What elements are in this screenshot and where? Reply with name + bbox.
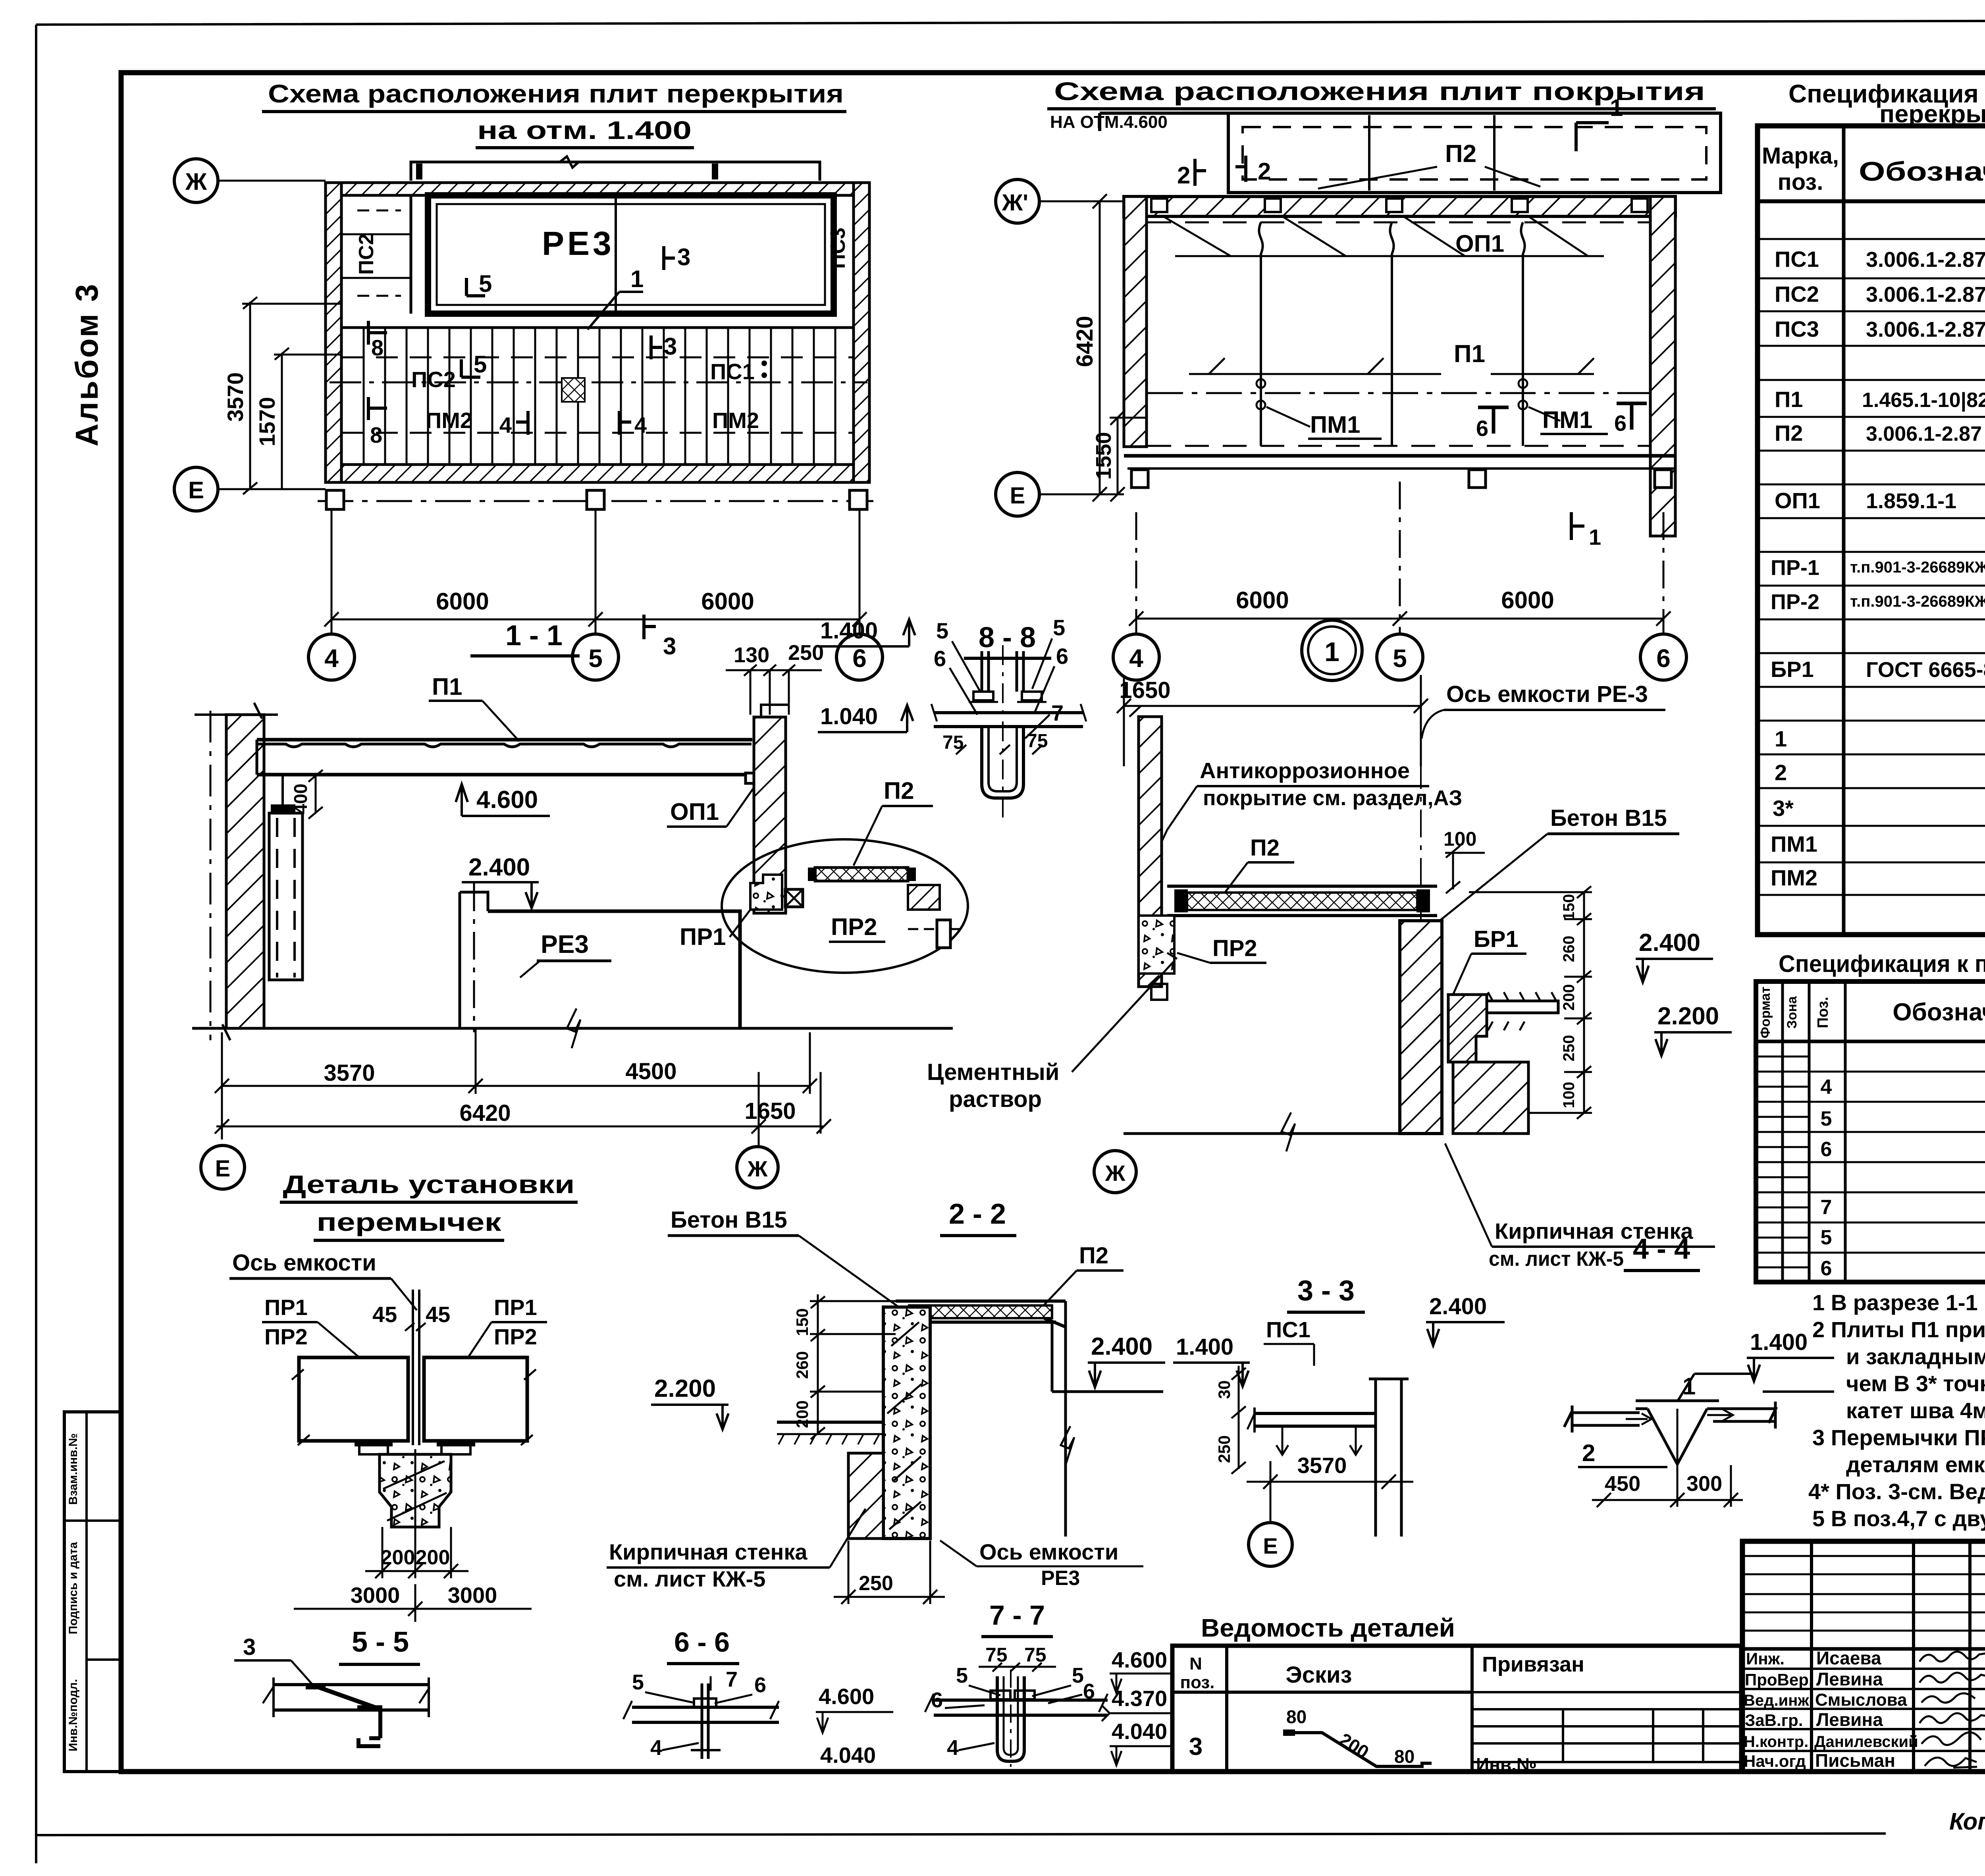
dashed plate edge line (top) — [1147, 222, 1650, 224]
bottom slab line — [1124, 454, 1675, 458]
svg-text:2.400: 2.400 — [1639, 929, 1700, 956]
axis dash-dot line below building — [318, 500, 873, 502]
svg-text:260: 260 — [793, 1351, 811, 1379]
svg-text:поз.: поз. — [1778, 169, 1823, 195]
svg-text:3.006.1-2.87 Вып.2: 3.006.1-2.87 Вып.2 — [1866, 283, 1985, 307]
svg-text:5: 5 — [1821, 1107, 1832, 1130]
right plate — [1713, 1402, 1777, 1429]
svg-text:6: 6 — [852, 644, 867, 673]
svg-text:7: 7 — [726, 1668, 738, 1691]
svg-text:4: 4 — [947, 1736, 959, 1760]
svg-text:Альбом 3: Альбом 3 — [69, 283, 104, 447]
hanger spec table grid — [1756, 981, 1985, 1282]
ПР2 square with cross — [785, 889, 803, 907]
svg-text:5: 5 — [588, 644, 603, 673]
svg-text:8: 8 — [370, 422, 382, 447]
svg-text:200: 200 — [1560, 984, 1578, 1011]
svg-text:Спецификация к подвескам метал: Спецификация к подвескам металлическим П… — [1779, 951, 1985, 977]
svg-text:3: 3 — [243, 1634, 256, 1660]
П2 plate — [1187, 893, 1417, 910]
svg-text:6: 6 — [1821, 1257, 1832, 1280]
svg-text:Письман: Письман — [1815, 1750, 1895, 1771]
svg-text:БР1: БР1 — [1771, 657, 1814, 682]
svg-text:П1: П1 — [1454, 340, 1485, 368]
bearing pads — [355, 1441, 393, 1446]
svg-text:см. лист КЖ-5: см. лист КЖ-5 — [614, 1566, 765, 1591]
svg-text:5: 5 — [1072, 1664, 1084, 1687]
svg-text:2: 2 — [1177, 162, 1190, 189]
small sq mark — [1151, 984, 1167, 1000]
concrete pier — [1400, 921, 1442, 1134]
left cells of plan — [341, 195, 411, 314]
beam П1 (roof slab) — [257, 744, 752, 747]
svg-text:3000: 3000 — [448, 1583, 497, 1608]
ОП1 leaders and label — [1163, 216, 1604, 256]
svg-text:Ось емкости: Ось емкости — [979, 1539, 1118, 1564]
lintel plates — [299, 1357, 408, 1441]
svg-text:Данилевский: Данилевский — [1814, 1733, 1918, 1751]
svg-text:1: 1 — [1589, 524, 1601, 549]
svg-text:200: 200 — [793, 1400, 811, 1428]
svg-text:6420: 6420 — [1072, 316, 1098, 367]
svg-text:ПС2: ПС2 — [355, 233, 378, 275]
weld joint plates — [1636, 1401, 1719, 1464]
svg-text:Бетон В15: Бетон В15 — [1550, 805, 1667, 831]
axis circle 6 — [1640, 634, 1686, 680]
svg-text:5: 5 — [474, 351, 487, 378]
dim line 3570 / 4500 — [215, 1028, 817, 1139]
title block grid — [1742, 1541, 1985, 1772]
svg-text:Схема расположения плит перекр: Схема расположения плит перекрытия — [268, 79, 844, 108]
svg-text:6000: 6000 — [436, 588, 489, 615]
dashed column — [269, 813, 303, 980]
U bar below plate — [982, 727, 1023, 798]
ground line — [192, 1027, 953, 1030]
axis circle Е — [1249, 1523, 1292, 1566]
svg-text:Е: Е — [1010, 483, 1025, 509]
svg-text:4* Поз. 3-см. Ведомость детале: 4* Поз. 3-см. Ведомость деталей на данно… — [1808, 1479, 1985, 1504]
feet under building — [1131, 470, 1148, 488]
svg-text:Подпись и дата: Подпись и дата — [67, 1542, 80, 1634]
big node circle 1 — [1302, 620, 1362, 681]
axis circle 5 — [572, 634, 619, 680]
svg-text:ПР2: ПР2 — [831, 914, 877, 940]
left plate — [1564, 1406, 1640, 1433]
svg-text:Зона: Зона — [1785, 996, 1800, 1029]
svg-text:3000: 3000 — [351, 1583, 400, 1608]
svg-text:450: 450 — [1605, 1472, 1640, 1496]
svg-text:1: 1 — [630, 266, 644, 292]
svg-text:5: 5 — [936, 618, 948, 643]
svg-text:200: 200 — [381, 1546, 415, 1569]
svg-text:см. лист КЖ-5: см. лист КЖ-5 — [1489, 1247, 1624, 1271]
svg-text:Смыслова: Смыслова — [1815, 1690, 1907, 1710]
svg-text:3570: 3570 — [223, 372, 248, 422]
svg-text:ПР1: ПР1 — [494, 1295, 537, 1320]
svg-text:1570: 1570 — [254, 397, 279, 447]
left wall with axis — [210, 711, 212, 1040]
building walls (hatched) — [326, 183, 869, 482]
svg-text:Обозначение: Обозначение — [1859, 156, 1985, 187]
concrete block ПР1 — [750, 875, 782, 910]
concrete pier — [380, 1454, 451, 1527]
svg-text:3.006.1-2.87 Вып.2: 3.006.1-2.87 Вып.2 — [1866, 422, 1985, 445]
svg-text:5: 5 — [956, 1664, 968, 1687]
plate — [632, 1706, 779, 1709]
svg-text:Е: Е — [1263, 1533, 1278, 1558]
axis circle Ж' — [996, 179, 1039, 223]
svg-text:ПМ2: ПМ2 — [712, 408, 759, 433]
svg-text:6: 6 — [1056, 644, 1068, 669]
svg-text:П2: П2 — [884, 777, 914, 804]
svg-text:4: 4 — [499, 413, 512, 438]
svg-text:Деталь установки: Деталь установки — [283, 1170, 575, 1199]
tank РЕ3 outline — [428, 195, 834, 314]
svg-text:3: 3 — [1189, 1733, 1203, 1760]
right wall — [754, 717, 786, 913]
section marks 4T T4 — [516, 411, 631, 435]
bortovoy stone БР1 — [1448, 995, 1487, 1062]
svg-text:БР1: БР1 — [1474, 926, 1519, 952]
svg-text:4: 4 — [324, 644, 339, 673]
svg-text:П1: П1 — [432, 673, 463, 700]
svg-text:ПС2: ПС2 — [411, 367, 456, 392]
axis dash-dot mid line — [1147, 392, 1650, 394]
svg-text:8 - 8: 8 - 8 — [979, 622, 1036, 654]
svg-text:Обозначение: Обозначение — [1892, 999, 1985, 1026]
svg-text:2.400: 2.400 — [468, 854, 530, 881]
svg-text:ОП1: ОП1 — [1775, 488, 1820, 513]
columns under building — [326, 490, 344, 509]
svg-text:ПР1: ПР1 — [680, 924, 726, 950]
svg-text:Н.контр.: Н.контр. — [1744, 1733, 1808, 1751]
svg-text:6420: 6420 — [459, 1100, 511, 1126]
lower zone plate joints — [330, 328, 867, 465]
notes list — [1808, 1290, 1985, 1531]
section marks 8 — [368, 321, 387, 420]
svg-text:РЕ3: РЕ3 — [1041, 1567, 1080, 1590]
hatched opening square — [562, 378, 585, 402]
brick wall lower left — [848, 1453, 883, 1539]
svg-text:4.040: 4.040 — [1112, 1719, 1167, 1744]
svg-text:1650: 1650 — [1119, 677, 1170, 703]
svg-text:150: 150 — [793, 1308, 811, 1336]
svg-text:3: 3 — [677, 244, 690, 270]
svg-text:2.200: 2.200 — [654, 1375, 716, 1402]
support pad ОП1 — [746, 773, 775, 783]
svg-text:ЗаВ.гр.: ЗаВ.гр. — [1745, 1711, 1803, 1729]
floor slab left — [777, 1422, 883, 1444]
support pads on top wall — [1151, 199, 1648, 212]
axis circle Ж — [1094, 1151, 1136, 1193]
svg-text:250: 250 — [859, 1572, 893, 1595]
svg-text:ОП1: ОП1 — [670, 798, 719, 825]
svg-text:6000: 6000 — [701, 588, 754, 615]
svg-text:Ж: Ж — [747, 1156, 768, 1181]
svg-text:ОП1: ОП1 — [1455, 230, 1504, 257]
svg-text:т.п.901-3-26689КЖ. И43.0.00: т.п.901-3-26689КЖ. И43.0.00 — [1850, 559, 1985, 576]
spec table grid — [1758, 126, 1985, 935]
shelf plate right — [1487, 1001, 1558, 1013]
svg-text:Левина: Левина — [1816, 1669, 1883, 1689]
svg-text:3 - 3: 3 - 3 — [1297, 1275, 1355, 1307]
tank axis dash-dot line — [1420, 713, 1422, 1134]
svg-text:3*: 3* — [1773, 796, 1794, 821]
svg-text:1650: 1650 — [744, 1098, 796, 1124]
svg-text:80: 80 — [1394, 1746, 1415, 1767]
svg-text:6: 6 — [754, 1673, 766, 1697]
svg-text:П2: П2 — [1445, 140, 1476, 168]
svg-text:75: 75 — [985, 1644, 1008, 1666]
svg-text:45: 45 — [372, 1302, 397, 1327]
svg-text:1.400: 1.400 — [1750, 1329, 1808, 1355]
П2 plate right — [815, 868, 908, 881]
svg-text:6: 6 — [1476, 416, 1488, 441]
svg-text:ПроВер.: ПроВер. — [1745, 1670, 1813, 1689]
svg-text:8: 8 — [371, 335, 384, 360]
svg-text:ПС2: ПС2 — [1775, 281, 1819, 307]
svg-text:5: 5 — [1393, 644, 1407, 673]
nuts — [991, 1691, 1010, 1699]
signatures — [1919, 1652, 1985, 1768]
svg-text:ГОСТ 6665-82: ГОСТ 6665-82 — [1866, 658, 1985, 682]
svg-text:Ж: Ж — [185, 168, 207, 195]
axis circle Е — [201, 1145, 245, 1189]
svg-text:ПМ1: ПМ1 — [1542, 407, 1592, 433]
svg-text:НА ОТМ.4.600: НА ОТМ.4.600 — [1050, 112, 1168, 132]
U bolt — [997, 1676, 1024, 1761]
brick wall below shelf — [1453, 1062, 1528, 1134]
svg-text:3570: 3570 — [1297, 1453, 1347, 1478]
dim line 6420 / 1650 — [215, 1072, 831, 1145]
svg-text:Вед.инж.: Вед.инж. — [1744, 1692, 1813, 1709]
svg-text:3.006.1-2.87 Вып.2: 3.006.1-2.87 Вып.2 — [1866, 318, 1985, 341]
svg-text:деталям емкости РЕ3.: деталям емкости РЕ3. — [1846, 1452, 1985, 1477]
plate — [934, 711, 1083, 714]
column I-beam — [1369, 1379, 1409, 1537]
svg-text:раствор: раствор — [949, 1086, 1042, 1112]
svg-text:катет шва 4мм.: катет шва 4мм. — [1846, 1398, 1985, 1423]
svg-text:т.п.901-3-26689КЖ.И44.000: т.п.901-3-26689КЖ.И44.000 — [1850, 593, 1985, 610]
svg-text:3570: 3570 — [324, 1060, 375, 1086]
svg-text:П2: П2 — [1079, 1243, 1108, 1269]
svg-text:1: 1 — [1775, 726, 1787, 751]
svg-text:Поз.: Поз. — [1815, 997, 1831, 1028]
svg-text:2 Плиты П1 приварить к мет: 2 Плиты П1 приварить к металлической бал… — [1812, 1317, 1985, 1342]
svg-text:2: 2 — [1258, 158, 1271, 185]
bottom dim 6000+6000 — [1129, 482, 1671, 634]
svg-text:ПР1: ПР1 — [264, 1295, 308, 1320]
svg-text:5: 5 — [479, 270, 492, 297]
svg-text:4: 4 — [1821, 1076, 1832, 1099]
svg-text:Схема расположения плит покрыт: Схема расположения плит покрытия — [1054, 77, 1705, 106]
left margin stamp strip — [64, 1412, 121, 1772]
vedomost table grid — [1172, 1646, 1741, 1772]
bottom dashed line — [1147, 445, 1650, 447]
svg-text:1: 1 — [1610, 94, 1623, 121]
parapet outline above top wall — [411, 156, 820, 181]
svg-text:РЕ3: РЕ3 — [541, 930, 589, 958]
concrete wall with dots — [883, 1307, 930, 1539]
svg-text:ПС3: ПС3 — [827, 228, 850, 269]
svg-text:1550: 1550 — [1092, 432, 1116, 480]
svg-text:N: N — [1189, 1654, 1202, 1674]
left wall — [1124, 197, 1147, 447]
vertical dim 1570 — [274, 348, 342, 489]
svg-text:Инж.: Инж. — [1746, 1649, 1785, 1668]
plate 5-5 — [263, 1677, 430, 1717]
svg-text:Эскиз: Эскиз — [1285, 1662, 1352, 1688]
svg-text:4: 4 — [634, 413, 647, 438]
svg-text:РЕ3: РЕ3 — [542, 225, 615, 262]
svg-text:1 - 1: 1 - 1 — [505, 620, 563, 652]
bottom dim line 6000+6000 — [324, 509, 867, 634]
svg-text:1.465.1-10|82 Вып.1: 1.465.1-10|82 Вып.1 — [1862, 389, 1985, 412]
hatched block right — [908, 885, 940, 910]
svg-text:Е: Е — [215, 1156, 231, 1182]
svg-text:чем В 3* точках, электродам: чем В 3* точках, электродами Э-42 ГОСТ 9… — [1846, 1371, 1985, 1396]
svg-text:П1: П1 — [1775, 387, 1803, 412]
svg-text:Ж: Ж — [1105, 1161, 1125, 1186]
svg-text:250: 250 — [788, 641, 824, 665]
svg-text:260: 260 — [1560, 936, 1578, 962]
axis circle 6 — [836, 634, 883, 680]
svg-text:150: 150 — [1560, 894, 1578, 921]
svg-text:ПС1: ПС1 — [710, 359, 755, 384]
svg-text:250: 250 — [1560, 1035, 1578, 1062]
svg-text:1.040: 1.040 — [820, 704, 878, 729]
bolts — [981, 651, 983, 692]
svg-text:П2: П2 — [1775, 420, 1803, 445]
svg-text:75: 75 — [1024, 1644, 1046, 1666]
svg-text:3: 3 — [663, 633, 676, 659]
svg-text:1.400: 1.400 — [1176, 1334, 1233, 1360]
svg-text:Нач.огд: Нач.огд — [1744, 1752, 1806, 1770]
svg-text:ПР2: ПР2 — [494, 1324, 537, 1349]
svg-text:7: 7 — [1821, 1196, 1832, 1219]
svg-text:на отм. 1.400: на отм. 1.400 — [477, 116, 692, 145]
svg-text:Инв.№: Инв.№ — [1476, 1754, 1537, 1775]
svg-text:Привязан: Привязан — [1482, 1652, 1584, 1676]
svg-text:6 - 6: 6 - 6 — [674, 1627, 730, 1658]
vertical dim 1550 — [1110, 411, 1147, 501]
tank РЕ3 in section — [460, 883, 740, 1032]
svg-text:Марка,: Марка, — [1762, 143, 1839, 169]
axis circle Е — [996, 472, 1039, 516]
svg-text:Ось емкости: Ось емкости — [232, 1250, 376, 1276]
axis circle Е — [174, 467, 218, 511]
svg-text:Ось емкости РЕ-3: Ось емкости РЕ-3 — [1446, 681, 1648, 707]
plate on column — [1247, 1407, 1376, 1455]
bracket — [357, 1707, 380, 1738]
svg-text:Копировал: Боброва: Копировал: Боброва — [1949, 1808, 1985, 1835]
svg-text:покрытие см. раздел,АЗ: покрытие см. раздел,АЗ — [1203, 786, 1462, 810]
axis circle Ж — [737, 1147, 778, 1188]
svg-text:300: 300 — [1686, 1472, 1722, 1496]
svg-text:Левина: Левина — [1816, 1709, 1883, 1730]
svg-text:7 - 7: 7 - 7 — [989, 1600, 1045, 1631]
hangers ПМ1 — [1257, 379, 1560, 427]
nut and bolt — [694, 1699, 716, 1707]
vertical dim chain 150 260 200 — [810, 1294, 896, 1439]
svg-text:400: 400 — [290, 784, 311, 814]
svg-text:ПМ1: ПМ1 — [1310, 411, 1360, 438]
svg-text:1 В разрезе 1-1 монорельсы ус: 1 В разрезе 1-1 монорельсы условно не по… — [1812, 1290, 1985, 1315]
svg-text:250: 250 — [1215, 1435, 1233, 1463]
vertical dim 400 — [308, 770, 323, 819]
svg-text:ПР-1: ПР-1 — [1771, 556, 1819, 580]
svg-text:4: 4 — [650, 1736, 662, 1760]
svg-text:5 - 5: 5 - 5 — [352, 1626, 409, 1658]
svg-text:2 - 2: 2 - 2 — [949, 1198, 1006, 1230]
svg-text:и закладным деталям опорных п: и закладным деталям опорных подушек не м… — [1846, 1344, 1985, 1369]
svg-text:Ведомость деталей: Ведомость деталей — [1201, 1614, 1455, 1642]
svg-text:ПС3: ПС3 — [1775, 316, 1819, 341]
diagonal strut — [316, 1686, 380, 1709]
anchor bolt right — [937, 920, 950, 948]
svg-text:перемычек: перемычек — [317, 1208, 502, 1236]
detail bubble — [722, 839, 968, 973]
svg-text:2.400: 2.400 — [1429, 1294, 1487, 1319]
svg-text:4.370: 4.370 — [1112, 1686, 1167, 1711]
svg-text:4.040: 4.040 — [820, 1743, 876, 1768]
svg-text:2.400: 2.400 — [1091, 1333, 1152, 1360]
vertical dim 6420 — [1093, 194, 1107, 501]
ground line — [1124, 1132, 1441, 1135]
svg-text:4.600: 4.600 — [476, 786, 538, 814]
svg-text:6: 6 — [1656, 644, 1671, 673]
svg-text:30: 30 — [1215, 1380, 1233, 1399]
svg-text:2: 2 — [1775, 760, 1787, 785]
axis circle 4 — [308, 634, 355, 680]
svg-text:ПР2: ПР2 — [264, 1324, 308, 1349]
svg-text:5: 5 — [1821, 1226, 1832, 1249]
svg-text:4: 4 — [1129, 644, 1143, 673]
axis circle 4 — [1113, 634, 1159, 680]
svg-text:130: 130 — [734, 643, 769, 667]
svg-text:4.600: 4.600 — [819, 1684, 874, 1709]
svg-text:6000: 6000 — [1501, 587, 1554, 613]
svg-text:1: 1 — [1324, 637, 1339, 667]
svg-text:1.400: 1.400 — [820, 618, 878, 644]
svg-text:6: 6 — [1614, 411, 1627, 436]
svg-text:5: 5 — [1053, 615, 1065, 640]
right wall — [1650, 197, 1675, 536]
left wall — [1139, 717, 1162, 987]
svg-text:Взам.инв.№: Взам.инв.№ — [67, 1433, 80, 1505]
vertical dim chain 150 260 200 250 100 — [1469, 886, 1592, 1119]
section mark 1 (bottom) — [1571, 512, 1584, 540]
svg-text:5: 5 — [632, 1670, 644, 1694]
svg-text:4 - 4: 4 - 4 — [1633, 1233, 1690, 1265]
svg-text:5 В поз.4,7 с двух концов ст: 5 В поз.4,7 с двух концов стержня нареза… — [1812, 1506, 1985, 1531]
svg-text:6000: 6000 — [1236, 587, 1289, 613]
svg-text:ПС1: ПС1 — [1775, 247, 1819, 272]
svg-text:ПМ2: ПМ2 — [426, 408, 472, 433]
П2 plate in section — [909, 1305, 1052, 1318]
axis circle 5 — [1377, 634, 1423, 680]
vertical dim 3570 — [242, 297, 342, 494]
svg-text:2: 2 — [1582, 1440, 1595, 1466]
svg-text:3.006.1-2.87 Вып.2: 3.006.1-2.87 Вып.2 — [1866, 248, 1985, 272]
svg-text:6: 6 — [934, 646, 946, 671]
axis circle Ж — [174, 159, 218, 202]
svg-text:ПС1: ПС1 — [1266, 1317, 1310, 1342]
nuts — [973, 692, 993, 700]
svg-text:ПМ2: ПМ2 — [1771, 865, 1817, 890]
svg-text:4500: 4500 — [625, 1059, 676, 1084]
sketch: bent bar — [1283, 1731, 1432, 1766]
